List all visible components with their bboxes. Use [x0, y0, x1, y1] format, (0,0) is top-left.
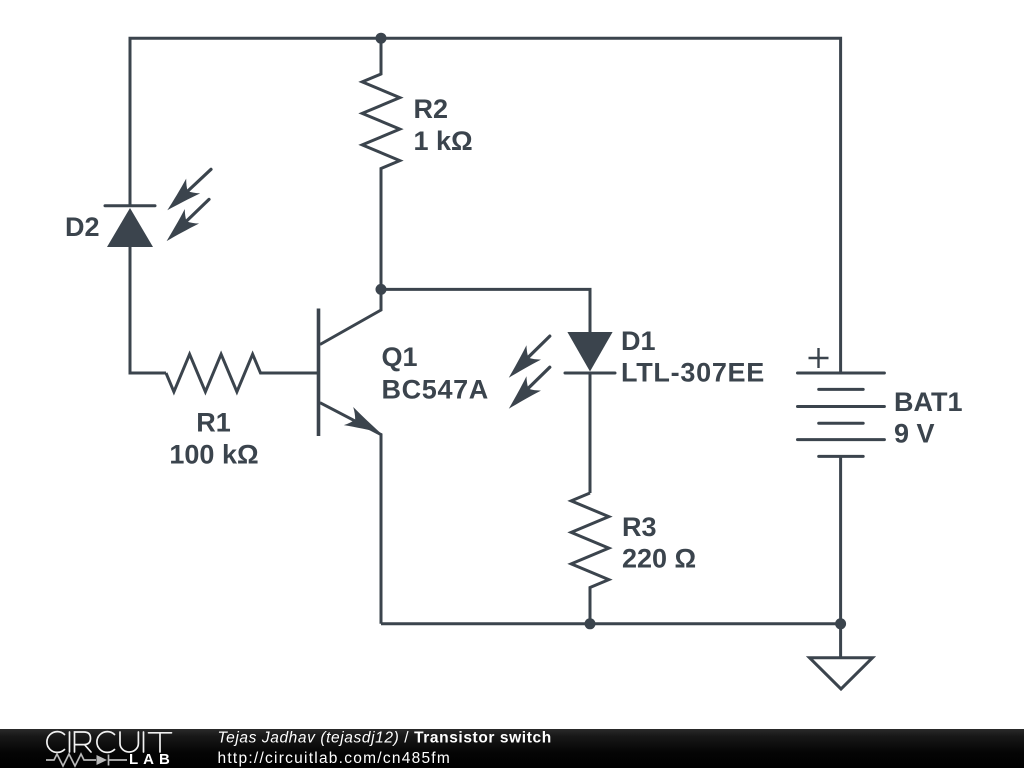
resistor R3 — [571, 493, 609, 624]
D1 cathode bar — [565, 372, 615, 375]
svg-text:1 kΩ: 1 kΩ — [414, 126, 473, 156]
ground — [810, 658, 873, 689]
footer bar — [0, 729, 1024, 768]
svg-text:LTL-307EE: LTL-307EE — [621, 358, 765, 388]
Q1 emitter lead — [320, 403, 381, 624]
CircuitLab logo resistor-diode glyph — [46, 754, 127, 766]
wire bottom rail — [381, 622, 841, 625]
Q1 base bar — [317, 309, 321, 437]
node R3 bottom junction — [585, 618, 596, 629]
D1 triangle — [567, 332, 612, 372]
Q1 collector lead — [320, 289, 381, 344]
svg-text:Tejas Jadhav (tejasdj12) / Tra: Tejas Jadhav (tejasdj12) / Transistor sw… — [218, 730, 552, 747]
svg-text:9 V: 9 V — [894, 419, 935, 449]
svg-text:100 kΩ: 100 kΩ — [169, 440, 258, 470]
wire collector node to D1 — [381, 289, 590, 332]
svg-text:LAB: LAB — [129, 751, 175, 768]
D2 light arrow 2 — [159, 199, 209, 248]
transistor Q1 — [319, 289, 382, 623]
svg-text:220 Ω: 220 Ω — [622, 544, 696, 574]
node ground junction — [835, 618, 846, 629]
D1 light arrow 1 — [502, 336, 550, 385]
svg-text:BC547A: BC547A — [382, 375, 489, 405]
D2 triangle — [107, 208, 153, 247]
battery BAT1 — [798, 373, 885, 456]
svg-text:Q1: Q1 — [382, 342, 418, 372]
D2 cathode bar — [105, 204, 155, 207]
Q1 emitter arrowhead — [344, 407, 385, 441]
resistor R2 — [362, 38, 400, 289]
wire top rail from D2 to BAT1 — [130, 38, 841, 373]
D2 light arrow 1 — [160, 169, 211, 217]
wire D1 cathode to R3 — [589, 373, 592, 493]
D1 light arrow 2 — [502, 367, 550, 416]
CircuitLab logo wordmark — [47, 732, 172, 753]
svg-text:http://circuitlab.com/cn485fm: http://circuitlab.com/cn485fm — [218, 750, 452, 767]
node top rail junction — [376, 33, 387, 44]
svg-text:R1: R1 — [196, 408, 231, 438]
wire D2 anode to R1 — [130, 247, 166, 373]
svg-text:D2: D2 — [65, 212, 100, 242]
svg-text:D1: D1 — [621, 326, 656, 356]
BAT1 plus sign — [809, 348, 829, 368]
resistor R1 — [166, 354, 317, 392]
photodiode D2 — [105, 206, 155, 247]
svg-text:BAT1: BAT1 — [894, 387, 963, 417]
svg-text:R3: R3 — [622, 512, 657, 542]
wire BAT1 minus to ground node — [839, 456, 842, 657]
svg-text:R2: R2 — [414, 94, 449, 124]
node collector junction — [376, 284, 387, 295]
LED D1 — [565, 332, 615, 373]
